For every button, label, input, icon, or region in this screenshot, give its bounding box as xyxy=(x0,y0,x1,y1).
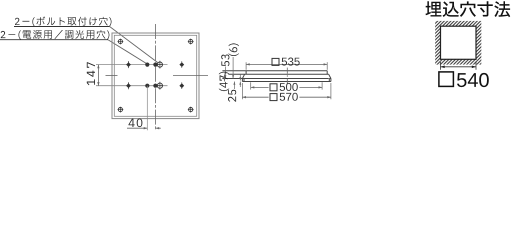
dim text 535 xyxy=(282,58,300,66)
leader line to bolt hole xyxy=(110,27,158,63)
ceiling line L3 xyxy=(222,78,328,80)
square symbol 500 xyxy=(270,84,277,91)
dim text 40 xyxy=(129,119,143,128)
ext 570 right xyxy=(330,83,332,99)
ext 535 right xyxy=(326,62,328,70)
vertical centerline xyxy=(155,24,157,131)
ext 540 right xyxy=(475,62,477,70)
hatch band around hole square xyxy=(435,21,481,65)
step line L2 xyxy=(228,73,328,75)
label power/dimming holes xyxy=(1,30,110,40)
section centerline xyxy=(286,68,288,84)
square symbol 535 xyxy=(272,58,279,65)
dim text 25 xyxy=(228,90,236,102)
square symbol 570 xyxy=(270,94,277,101)
leader line (6) xyxy=(232,57,234,79)
ext 540 left xyxy=(440,62,442,70)
plate inner square xyxy=(114,35,196,116)
corner hole 4 xyxy=(189,108,193,112)
ext 535 left xyxy=(245,62,247,70)
dim text (47) xyxy=(219,72,229,91)
dim line 25 xyxy=(233,82,235,90)
dim line 40 with arrow xyxy=(127,127,147,129)
dim text 570 xyxy=(280,93,298,101)
ext line 40 left xyxy=(146,86,148,131)
dim line 47 xyxy=(224,74,226,81)
dim line 540 xyxy=(441,66,477,68)
corner hole 1 xyxy=(118,39,122,43)
dim line 570 right part xyxy=(299,96,331,98)
ext 500 right xyxy=(321,82,323,89)
row line upper xyxy=(96,64,168,66)
dim text 500 xyxy=(280,83,298,91)
dim line 40 right tail xyxy=(156,127,161,129)
leader line to power hole xyxy=(108,40,146,64)
flange bottom L4 xyxy=(242,81,331,83)
title 埋込穴寸法 xyxy=(426,1,511,17)
hole group row 1 xyxy=(126,62,131,67)
plate outer square xyxy=(112,33,199,119)
ext 570 left xyxy=(241,83,243,99)
horizontal centerline right stub xyxy=(173,74,208,76)
corner hole 3 xyxy=(118,108,122,112)
dim text 147 xyxy=(87,62,95,85)
box top line L1 xyxy=(222,70,327,72)
dim text (6) xyxy=(229,43,239,56)
dim line 500 right part xyxy=(299,86,322,88)
dim line 570 left part xyxy=(242,96,268,98)
dim line 53 xyxy=(224,67,226,79)
dim line 535 xyxy=(246,63,327,65)
label bolt mounting holes xyxy=(15,17,112,27)
dim arrows 6mm upper xyxy=(239,74,241,80)
body side edges xyxy=(245,71,247,75)
dim arrows 6mm lower xyxy=(239,82,241,88)
underline label1 xyxy=(14,26,110,28)
dim text 540 xyxy=(457,73,489,87)
row line lower xyxy=(96,85,168,87)
dim text 53 xyxy=(221,55,229,67)
corner hole 2 xyxy=(189,39,193,43)
horizontal centerline left stub xyxy=(106,74,118,76)
square symbol 540 xyxy=(439,72,454,87)
dim line 500 left part xyxy=(251,86,269,88)
hole group row 2 xyxy=(126,83,131,88)
underline label2 xyxy=(0,39,108,41)
ext 500 left xyxy=(250,82,252,89)
hole square xyxy=(441,26,477,59)
dim line 147 xyxy=(97,65,99,86)
